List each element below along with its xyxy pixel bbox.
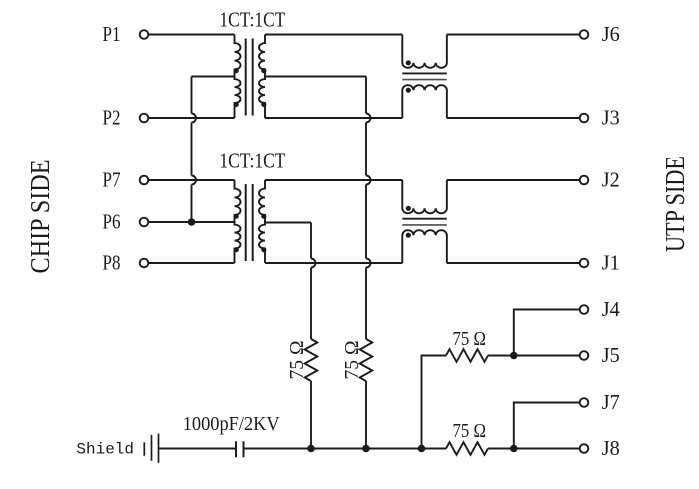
pin J6 <box>580 30 589 39</box>
pin P8 <box>140 259 149 268</box>
transformer T1 primary winding <box>235 35 241 119</box>
wire P7 to T2 primary top <box>148 179 234 181</box>
node junction R1 on shield bus <box>307 445 315 453</box>
wire J5 resistor to J5 <box>488 355 580 357</box>
pin J4 <box>580 305 589 314</box>
pin J2 <box>580 176 589 185</box>
transformer T2 secondary phase dot lower <box>261 247 266 252</box>
wire choke L1 to J6 <box>447 34 580 36</box>
common-mode choke L2 bottom winding <box>402 230 447 263</box>
choke L1 core <box>402 72 447 74</box>
wire T1 secondary top to choke L1 <box>265 34 402 36</box>
svg-text:J1: J1 <box>602 251 620 275</box>
wire T1 secondary center tap to right <box>265 76 366 78</box>
svg-text:J2: J2 <box>602 168 620 192</box>
svg-text:J8: J8 <box>602 436 620 460</box>
node junction J7/J8 <box>510 445 518 453</box>
wire J8 resistor to J8 <box>488 448 580 450</box>
wire vertical from T1 secondary center tap down to R2 (hops over J3, J2, J1 wires) <box>366 77 371 340</box>
pin J1 <box>580 259 589 268</box>
svg-text:J3: J3 <box>602 106 620 130</box>
wire vertical from T1 center tap down to P6 node (hops over P2 and P7 wires) <box>192 77 197 223</box>
wire P6 to T2 primary center tap <box>148 221 234 223</box>
wire R1 bottom to shield bus <box>310 381 312 449</box>
svg-text:75 Ω: 75 Ω <box>286 341 308 380</box>
transformer T1 secondary phase dot upper <box>261 68 266 73</box>
pin P2 <box>140 114 149 123</box>
wire P8 to T2 primary bottom <box>148 262 234 264</box>
common-mode choke L1 bottom winding <box>402 85 447 118</box>
choke L1 bottom winding phase dot <box>406 88 411 93</box>
choke L2 top winding phase dot <box>406 206 411 211</box>
wire choke L2 to J2 <box>447 179 580 181</box>
transformer T2 secondary phase dot upper <box>261 214 266 219</box>
resistor 75ohm (left vertical, on T2 center-tap leg) <box>305 339 318 381</box>
transformer T2 primary phase dot upper <box>234 214 239 219</box>
svg-text:P7: P7 <box>103 168 121 192</box>
common-mode choke L2 top winding <box>402 180 447 213</box>
node junction J4/J5 <box>510 352 518 360</box>
svg-text:UTP SIDE: UTP SIDE <box>660 156 690 252</box>
svg-text:P1: P1 <box>103 22 121 46</box>
transformer T1 secondary winding <box>259 35 265 119</box>
transformer T1 primary phase dot upper <box>234 68 239 73</box>
pin J8 <box>580 444 589 453</box>
svg-text:J7: J7 <box>602 390 620 414</box>
wire T1 primary center tap to left vertical <box>192 76 235 78</box>
svg-text:P6: P6 <box>103 210 121 234</box>
wire junction up to J4 <box>514 310 580 356</box>
svg-text:J4: J4 <box>602 297 620 321</box>
wire T2 secondary bottom to choke L2 <box>265 262 402 264</box>
pin P1 <box>140 30 149 39</box>
transformer T1 secondary phase dot lower <box>261 102 266 107</box>
wire riser from bus up to J5 resistor <box>422 356 447 449</box>
pin J5 <box>580 351 589 360</box>
wire T2 secondary top to choke L2 <box>265 179 402 181</box>
transformer T1 primary phase dot lower <box>234 102 239 107</box>
svg-text:1CT:1CT: 1CT:1CT <box>219 149 285 173</box>
svg-text:J5: J5 <box>602 343 620 367</box>
wire P2 to T1 primary bottom <box>148 117 234 119</box>
wire R2 bottom to shield bus <box>365 381 367 449</box>
wire junction up to J7 <box>514 403 580 449</box>
wire T2 secondary center tap to right <box>265 222 311 224</box>
svg-text:J6: J6 <box>602 22 620 46</box>
svg-text:P2: P2 <box>103 106 121 130</box>
wire choke L1 to J3 <box>447 117 580 119</box>
choke L1 top winding phase dot <box>406 60 411 65</box>
svg-text:Shield: Shield <box>76 441 134 459</box>
svg-text:1CT:1CT: 1CT:1CT <box>219 8 285 32</box>
resistor 75ohm (J4/J5 horizontal) <box>446 349 488 362</box>
node junction at P6 wire <box>188 218 196 226</box>
transformer T2 secondary winding <box>259 180 265 263</box>
resistor 75ohm (right vertical, on T1 center-tap leg) <box>360 339 373 381</box>
choke L2 core <box>402 218 447 220</box>
transformer T1 core <box>246 39 253 116</box>
node junction riser to J5 resistor <box>418 445 426 453</box>
capacitor 1000pF/2KV <box>236 441 244 457</box>
choke L2 bottom winding phase dot <box>406 233 411 238</box>
wire choke L2 to J1 <box>447 262 580 264</box>
pin P6 <box>140 218 149 227</box>
svg-text:1000pF/2KV: 1000pF/2KV <box>183 413 281 435</box>
common-mode choke L1 top winding <box>402 35 447 68</box>
wire T1 secondary bottom to choke L1 <box>265 117 402 119</box>
wire P1 to T1 primary top <box>148 34 234 36</box>
transformer T2 primary winding <box>235 180 241 263</box>
svg-text:CHIP SIDE: CHIP SIDE <box>25 160 55 274</box>
svg-text:P8: P8 <box>103 251 121 275</box>
pin J3 <box>580 114 589 123</box>
pin P7 <box>140 176 149 185</box>
resistor 75ohm (J7/J8 horizontal, in shield bus) <box>446 442 488 455</box>
node junction R2 on shield bus <box>362 445 370 453</box>
shield bus wire from capacitor to J8 resistor <box>244 448 447 450</box>
wire shield to capacitor <box>159 448 237 450</box>
svg-text:75 Ω: 75 Ω <box>453 420 487 442</box>
wire vertical from T2 secondary center tap down to R1 (hops over J1 wire) <box>311 223 316 340</box>
pin J7 <box>580 398 589 407</box>
svg-text:75 Ω: 75 Ω <box>341 341 363 380</box>
transformer T2 core <box>246 184 253 261</box>
transformer T2 primary phase dot lower <box>234 247 239 252</box>
svg-text:75 Ω: 75 Ω <box>453 328 487 350</box>
shield terminal symbol <box>144 434 158 463</box>
